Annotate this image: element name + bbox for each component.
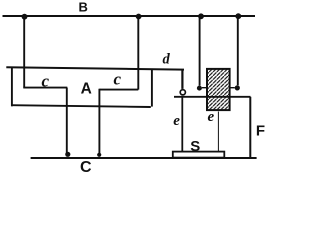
svg-text:e: e [208,109,215,125]
svg-text:c: c [114,69,122,88]
svg-text:c: c [42,72,50,91]
svg-text:e: e [173,113,180,129]
svg-text:A: A [81,81,92,98]
svg-text:d: d [163,52,171,68]
svg-text:C: C [80,159,92,174]
svg-text:S: S [190,138,200,155]
svg-text:B: B [79,0,88,15]
svg-text:F: F [256,123,265,140]
